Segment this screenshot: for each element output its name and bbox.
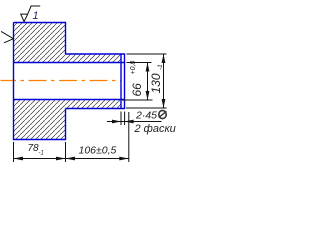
- chamfer arrow left: [112, 120, 121, 124]
- chamfer extension line left: [120, 112, 122, 126]
- bore top line: [14, 62, 125, 64]
- hatch hub lower wall: [66, 100, 122, 109]
- dim line bottom: [14, 158, 129, 160]
- svg-text:78: 78: [28, 143, 40, 154]
- svg-text:-1: -1: [157, 64, 164, 70]
- chamfer extension line right: [124, 112, 126, 126]
- dim 106 extension line right: [128, 112, 130, 162]
- svg-text:-1: -1: [39, 151, 44, 157]
- dim 66 extension bottom: [122, 99, 153, 101]
- svg-text:2 фаски: 2 фаски: [134, 123, 176, 135]
- dim 130 extension top: [127, 53, 167, 55]
- chamfer line hub end: [120, 54, 122, 109]
- svg-text:+0,8: +0,8: [130, 61, 137, 75]
- svg-text:130: 130: [149, 73, 163, 93]
- arrow 130 bottom: [162, 99, 166, 108]
- arrow 106 left: [66, 157, 76, 161]
- svg-text:1: 1: [33, 10, 39, 22]
- dim 78 extension line left: [13, 142, 15, 162]
- dim line 130: [163, 54, 165, 108]
- arrow 130 top: [162, 54, 166, 63]
- svg-text:106±0,5: 106±0,5: [79, 145, 117, 157]
- arrow 78 left: [14, 157, 24, 161]
- chamfer dim leader line: [107, 121, 162, 123]
- surface finish symbol top: [21, 6, 41, 22]
- bore bottom line: [14, 99, 125, 101]
- arrow 78 right: [56, 157, 66, 161]
- surface finish symbol left face: [1, 31, 13, 42]
- arrow 106 right: [119, 157, 129, 161]
- svg-text:2·45: 2·45: [135, 110, 157, 122]
- svg-text:66: 66: [130, 83, 144, 97]
- arrow 66 top: [146, 63, 150, 72]
- dim 66 extension top: [127, 62, 152, 64]
- centerline: [1, 80, 121, 82]
- dim line 66: [147, 63, 149, 101]
- hatch flange lower block: [14, 100, 66, 140]
- hatch hub upper wall: [66, 54, 122, 63]
- part outline hub: [66, 54, 125, 109]
- dim extension line flange right: [65, 142, 67, 162]
- dim 130 extension bottom: [126, 107, 167, 109]
- arrow 66 bottom: [146, 91, 150, 100]
- chamfer arrow right: [125, 120, 134, 124]
- chamfer degree symbol: [159, 110, 166, 118]
- hatch flange upper block: [14, 23, 66, 63]
- part outline flange: [14, 23, 66, 140]
